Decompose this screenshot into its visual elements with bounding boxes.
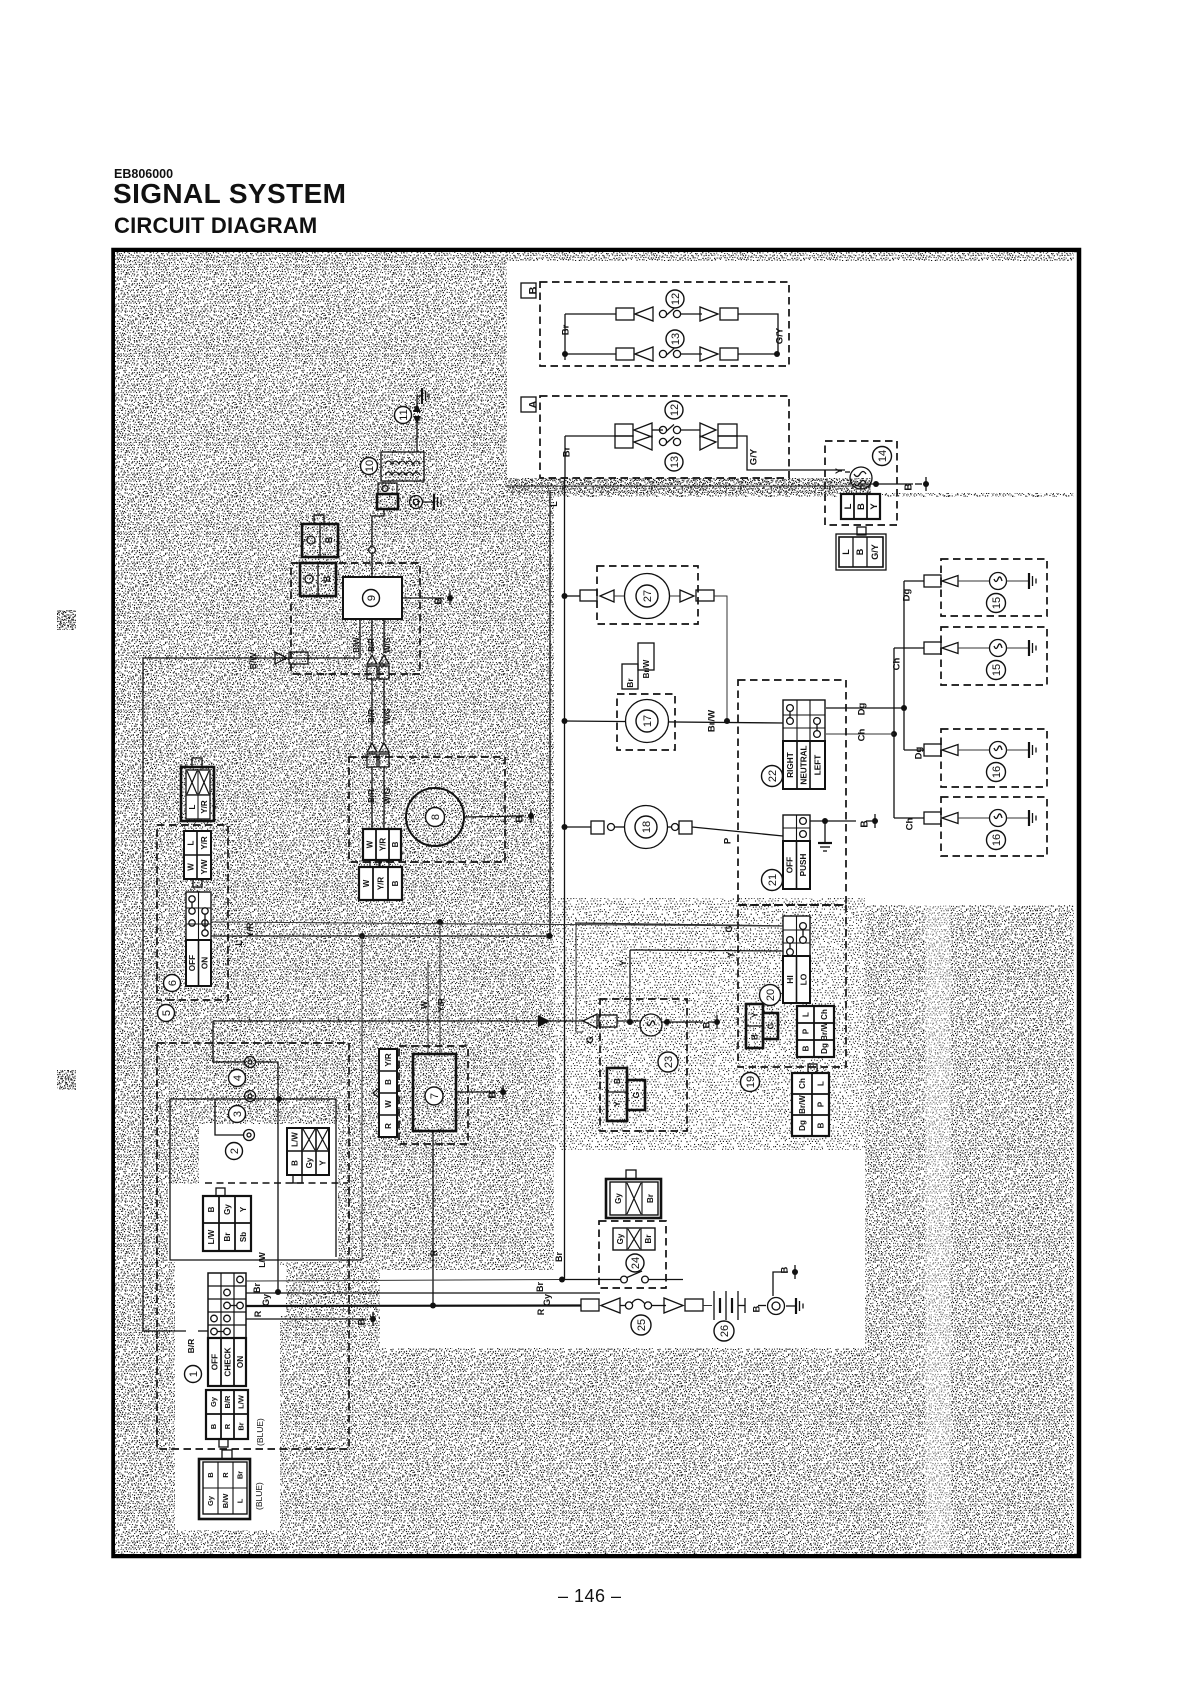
spark gap 11	[413, 402, 421, 452]
svg-text:Br/W: Br/W	[820, 1022, 829, 1041]
junction meter bulb	[664, 1019, 670, 1025]
junction Br at 18	[562, 824, 568, 830]
svg-text:B: B	[206, 1472, 215, 1478]
lamp 16 bulb	[990, 810, 1029, 827]
svg-text:Dg: Dg	[856, 702, 867, 715]
svg-text:Br: Br	[625, 678, 635, 688]
junction BrW	[724, 718, 730, 724]
terminal B lamp 14	[876, 477, 929, 491]
bullet connectors pair 2	[367, 743, 389, 767]
junction L wire b	[547, 933, 553, 939]
svg-text:Ch: Ch	[904, 817, 915, 830]
relay assembly 9 dashed box	[291, 563, 420, 674]
svg-text:B: B	[391, 880, 400, 886]
bullet connectors pair 1	[367, 655, 389, 679]
svg-text:B: B	[207, 1206, 216, 1212]
wire Ch to lamp 16	[894, 817, 924, 830]
halftone band under box A	[507, 478, 871, 493]
svg-text:14: 14	[877, 450, 889, 462]
connector Y B G (meter)	[607, 1068, 645, 1121]
svg-text:L: L	[843, 503, 854, 509]
svg-text:Y: Y	[726, 952, 736, 958]
wire box A right G/Y	[737, 436, 845, 470]
flasher relay contact row 13 (box B)	[565, 347, 778, 361]
fuse 5 number	[158, 1005, 175, 1022]
horn switch 21 contacts	[800, 818, 807, 838]
contact 3 number	[229, 1106, 246, 1123]
svg-text:B: B	[434, 597, 445, 604]
svg-text:L: L	[186, 840, 195, 845]
wire Y/R to regulator	[436, 922, 446, 1054]
wire from 27 right to Br/W	[670, 590, 727, 721]
meter light 23 number	[658, 1052, 678, 1072]
svg-text:10: 10	[364, 460, 376, 472]
svg-text:L: L	[236, 1498, 245, 1503]
svg-text:12: 12	[669, 404, 681, 416]
lamp 16 number	[987, 763, 1006, 782]
lighting switch 6 contacts	[189, 896, 208, 936]
connector O B upper	[302, 515, 338, 557]
junction lamp 14 B	[873, 481, 879, 487]
fuse connector B Gy Y	[287, 1128, 329, 1183]
svg-text:L: L	[549, 501, 559, 507]
svg-text:PUSH: PUSH	[799, 854, 808, 877]
svg-text:19: 19	[745, 1076, 757, 1088]
svg-text:Br: Br	[223, 1233, 232, 1242]
wire box B left	[565, 314, 616, 360]
flasher terminal right	[410, 494, 442, 510]
wire Dg to lamp 16	[904, 746, 924, 759]
svg-text:Gy: Gy	[616, 1233, 625, 1244]
relay contacts 12/13 (box A)	[615, 423, 737, 450]
svg-text:Y/R: Y/R	[200, 800, 209, 814]
svg-text:Br: Br	[535, 1282, 545, 1292]
svg-text:4: 4	[232, 1075, 244, 1081]
svg-text:Br: Br	[252, 1283, 262, 1293]
svg-text:25: 25	[636, 1319, 648, 1331]
svg-text:P: P	[801, 1028, 810, 1034]
svg-text:B: B	[391, 841, 400, 847]
wire vertical L to switch	[549, 490, 551, 936]
lighting switch 6 dashed box	[157, 825, 228, 1000]
meter lamp 14 dashed box	[825, 441, 897, 525]
svg-text:OFF: OFF	[211, 1354, 220, 1370]
svg-text:L/W: L/W	[257, 1251, 267, 1268]
node Br/W	[706, 710, 717, 732]
junction box B left	[562, 351, 568, 357]
svg-text:17: 17	[642, 715, 654, 727]
svg-text:OFF: OFF	[188, 955, 197, 971]
wire Y/R from switch	[211, 922, 783, 938]
white area mid right	[554, 497, 1074, 903]
oil level light 17 dashed box	[617, 694, 675, 750]
connector L/W Br Sb / B Gy Y	[203, 1188, 251, 1251]
connector label Br/W box	[638, 643, 654, 678]
svg-text:Ch: Ch	[856, 728, 867, 741]
lamp 15 number	[987, 594, 1006, 613]
meter lamp 14 number	[873, 447, 892, 466]
svg-text:Y: Y	[612, 1101, 622, 1107]
svg-text:B: B	[324, 536, 334, 543]
svg-text:Y: Y	[869, 503, 880, 510]
svg-text:R: R	[429, 1249, 439, 1256]
node L at band	[549, 501, 559, 507]
lamp 14 bulb	[845, 467, 876, 489]
main fuse 25 number	[631, 1315, 651, 1335]
svg-text:Y/R: Y/R	[436, 998, 446, 1012]
svg-text:11: 11	[398, 409, 410, 420]
svg-text:G: G	[631, 1091, 641, 1098]
wire loop main switch	[213, 1021, 278, 1099]
junction Dg	[901, 705, 907, 711]
lamp 15 connector bullets	[924, 642, 990, 654]
spark gap 11 number	[395, 407, 412, 424]
lamp 15 bulb	[990, 573, 1029, 590]
svg-text:B: B	[816, 1122, 825, 1128]
svg-text:W: W	[419, 1000, 429, 1009]
wire Ch to lamp 15	[891, 648, 924, 670]
lamp 16 number	[987, 831, 1006, 850]
svg-text:NEUTRAL: NEUTRAL	[800, 745, 809, 784]
battery 26 number	[714, 1321, 734, 1341]
ground top	[417, 388, 429, 404]
svg-text:27: 27	[642, 590, 654, 602]
diode connector Gy Br lower	[613, 1228, 655, 1250]
svg-text:W/G: W/G	[383, 637, 392, 653]
wire loop row 1135	[215, 1099, 243, 1135]
svg-text:RIGHT: RIGHT	[786, 752, 795, 777]
svg-text:Br: Br	[560, 324, 571, 335]
svg-text:22: 22	[767, 770, 779, 782]
margin smudge upper	[57, 610, 76, 630]
svg-text:9: 9	[366, 595, 378, 601]
svg-text:Sb: Sb	[239, 1232, 248, 1242]
svg-text:R: R	[384, 1123, 393, 1129]
svg-text:15: 15	[991, 597, 1003, 609]
node Y at lamp 14	[834, 468, 844, 474]
wire through 17	[564, 721, 783, 723]
svg-text:Dg: Dg	[913, 746, 924, 759]
svg-text:Br/W: Br/W	[798, 1095, 807, 1114]
svg-text:Br: Br	[237, 1422, 246, 1430]
svg-text:Br/W: Br/W	[642, 659, 651, 678]
wire R from regulator	[429, 1131, 439, 1306]
svg-text:Y/R: Y/R	[200, 836, 209, 850]
sidestand switch contacts	[562, 1271, 683, 1283]
wire flasher to 9	[369, 509, 384, 577]
svg-text:Br/W: Br/W	[706, 710, 717, 732]
horn switch 21 table	[783, 815, 810, 889]
svg-text:P: P	[816, 1101, 825, 1107]
svg-text:Y: Y	[239, 1206, 248, 1212]
white area bottom middle	[554, 1150, 865, 1270]
ground at lamp 15	[1029, 640, 1036, 656]
flasher lamp 16 dashed box	[941, 729, 1047, 787]
wire B/W to left	[143, 652, 360, 670]
fuse holder connector	[181, 758, 214, 821]
ground at lamp 15	[1029, 573, 1036, 589]
circuit 12 number (box B)	[666, 290, 684, 308]
main switch 1 number	[185, 1366, 202, 1383]
svg-text:18: 18	[641, 821, 653, 833]
immobilizer dashed box 5	[157, 1043, 349, 1449]
svg-text:B: B	[856, 503, 867, 510]
wire vertical Br trunk	[564, 478, 566, 1280]
meter light feed wire	[213, 1015, 583, 1027]
svg-text:B: B	[751, 1305, 762, 1312]
wire to 27 left	[564, 590, 624, 602]
svg-text:SIGNAL SYSTEM: SIGNAL SYSTEM	[113, 178, 346, 209]
regulator 7 dashed box	[399, 1046, 468, 1144]
connector B Y G (dimmer)	[746, 1004, 778, 1048]
junction Br at 27	[562, 593, 568, 599]
node G at meter	[585, 1036, 595, 1043]
svg-text:B: B	[209, 1423, 218, 1429]
svg-text:B/W: B/W	[248, 652, 258, 670]
wire Ch from switch 22	[826, 728, 894, 741]
circuit 13 number (box B)	[666, 330, 684, 348]
wire W Y/R vertical from connector	[361, 936, 363, 1260]
halftone background main	[115, 252, 1074, 1554]
svg-text:(BLUE): (BLUE)	[255, 1418, 265, 1446]
halftone meter area light speckle	[554, 898, 865, 1150]
svg-text:3: 3	[232, 1111, 244, 1117]
svg-text:B: B	[612, 1078, 622, 1084]
svg-text:W/G: W/G	[383, 788, 392, 804]
svg-text:20: 20	[765, 989, 777, 1001]
svg-text:L/W: L/W	[237, 1394, 246, 1409]
terminal B meter	[701, 1015, 720, 1029]
wire R from main switch	[246, 1306, 581, 1318]
svg-text:LEFT: LEFT	[814, 755, 823, 775]
svg-text:B: B	[528, 286, 540, 294]
svg-text:26: 26	[719, 1325, 731, 1337]
junction Br trunk bottom	[559, 1277, 565, 1283]
sidestand switch 24 dashed box	[599, 1221, 666, 1288]
junction Br at 17	[562, 718, 568, 724]
wire Y to dimmer	[630, 950, 783, 958]
oil level light 17	[626, 700, 669, 743]
diagram frame	[114, 250, 1080, 1556]
wire L along band	[505, 485, 871, 487]
svg-text:G/Y: G/Y	[870, 544, 880, 560]
connector L Y/R W Y/W	[184, 831, 211, 887]
svg-text:Gy: Gy	[261, 1294, 271, 1306]
flasher connector small	[377, 483, 398, 509]
halftone band top strip	[507, 252, 1074, 261]
terminal B relay 9	[402, 591, 453, 605]
svg-text:Ch: Ch	[798, 1078, 807, 1089]
label B boxed	[521, 283, 540, 298]
svg-text:B/R: B/R	[186, 1339, 196, 1354]
svg-text:A: A	[528, 400, 540, 408]
junction Ch	[891, 731, 897, 737]
svg-text:B/R: B/R	[367, 638, 376, 652]
svg-text:Br: Br	[646, 1194, 655, 1203]
svg-text:L/W: L/W	[290, 1132, 299, 1147]
lighting switch 6 table	[186, 892, 211, 986]
inner dashed divider	[205, 1182, 348, 1184]
svg-text:W: W	[384, 1100, 393, 1108]
dimmer switch 20 contacts	[787, 923, 807, 956]
wire Dg vertical right	[903, 581, 905, 750]
terminal B main switch	[246, 1312, 376, 1326]
svg-text:15: 15	[991, 664, 1003, 676]
svg-text:13: 13	[670, 333, 682, 345]
node G/Y box B	[774, 327, 785, 344]
contact 2	[244, 1130, 255, 1141]
lamp 16 bulb	[990, 742, 1029, 759]
svg-text:B: B	[290, 1160, 299, 1166]
svg-text:Gy: Gy	[614, 1193, 623, 1204]
sidestand switch 24 number	[626, 1254, 644, 1272]
connector R W B Y/R	[373, 1049, 397, 1137]
lamp 15 number	[987, 661, 1006, 680]
svg-text:Gy: Gy	[209, 1396, 218, 1407]
svg-text:Y: Y	[318, 1160, 327, 1166]
svg-text:L: L	[188, 804, 197, 809]
margin smudge lower	[57, 1070, 76, 1090]
headlight connector 19 upper	[797, 1006, 834, 1057]
wire B from 21	[810, 814, 878, 828]
scan streak light band	[925, 903, 951, 1554]
svg-text:Dg: Dg	[901, 588, 912, 601]
turn switch 22 number	[762, 766, 783, 787]
wire loop row 1099	[170, 1096, 336, 1102]
svg-text:B/R: B/R	[367, 709, 376, 723]
svg-text:B: B	[488, 1091, 499, 1098]
wire G loop meter	[576, 923, 783, 1032]
svg-text:1: 1	[188, 1371, 200, 1377]
dimmer switch 20 table	[783, 916, 810, 1003]
dimmer switch 20 number	[760, 985, 781, 1006]
ground at lamp 16	[1029, 742, 1036, 758]
lamp 15 bulb	[990, 640, 1029, 657]
junction box B right	[774, 351, 780, 357]
junction L wire a	[359, 933, 365, 939]
wires under relay 9	[352, 619, 392, 658]
connector W Y/R B upper	[363, 829, 401, 868]
svg-text:6: 6	[167, 980, 179, 986]
wire W to regulator	[419, 960, 429, 1054]
svg-text:P: P	[722, 837, 733, 844]
svg-text:16: 16	[991, 766, 1003, 778]
svg-text:Gy: Gy	[542, 1294, 552, 1306]
flasher lamp 15 dashed box	[941, 559, 1047, 616]
flasher relay contact row 12 (box B)	[616, 307, 738, 321]
svg-text:Gy: Gy	[223, 1204, 232, 1215]
svg-text:B: B	[515, 815, 526, 822]
dimmer switch dashed box 19/20	[738, 905, 846, 1067]
svg-text:L: L	[816, 1081, 825, 1086]
svg-text:LO: LO	[798, 973, 808, 985]
svg-text:W/G: W/G	[383, 708, 392, 724]
main switch 1 table	[208, 1273, 246, 1386]
horn 8	[406, 788, 464, 846]
turn switch 22 table	[783, 700, 825, 789]
wire loop left side	[170, 1099, 362, 1268]
svg-text:Y/R: Y/R	[378, 838, 387, 852]
wire loop right side	[278, 1099, 336, 1292]
svg-text:G/Y: G/Y	[774, 327, 785, 344]
svg-text:Ch: Ch	[891, 657, 902, 670]
wire G to dimmer	[576, 923, 783, 933]
circuit 12 number (box A)	[665, 401, 683, 419]
fuel light 18	[564, 806, 668, 849]
svg-text:Y: Y	[618, 960, 628, 966]
svg-text:OFF: OFF	[786, 857, 795, 873]
svg-text:Gy: Gy	[206, 1495, 215, 1506]
svg-text:W: W	[362, 879, 371, 887]
svg-text:12: 12	[670, 293, 682, 305]
svg-text:G: G	[766, 1022, 776, 1029]
svg-text:B: B	[322, 575, 332, 582]
relay unit 9	[343, 577, 402, 619]
wires B/R W/G into horn box	[367, 767, 392, 829]
starter relay circle	[768, 1298, 804, 1315]
white area top right	[507, 253, 1074, 478]
connector L B G/Y	[836, 527, 886, 570]
svg-text:7: 7	[429, 1093, 441, 1099]
wire P from 18	[668, 821, 784, 844]
lamp 16 connector bullets	[924, 812, 990, 824]
svg-text:Ch: Ch	[820, 1009, 829, 1020]
svg-text:B: B	[356, 1318, 367, 1325]
svg-text:L: L	[841, 549, 851, 555]
svg-text:B: B	[801, 1045, 810, 1051]
svg-text:B: B	[779, 1266, 790, 1273]
svg-text:B: B	[750, 1034, 760, 1040]
svg-text:(BLUE): (BLUE)	[254, 1482, 264, 1510]
ground from 21	[818, 821, 832, 851]
white area main-switch connectors	[199, 1124, 338, 1184]
lamp 15 connector bullets	[924, 575, 990, 587]
svg-text:21: 21	[767, 874, 779, 886]
flasher relay 10 number	[361, 458, 378, 475]
svg-text:B/W: B/W	[352, 637, 361, 653]
turn indicator light 27 dashed box	[597, 566, 698, 624]
meter light 23 dashed box	[600, 999, 687, 1131]
wire Gy from main switch	[246, 1293, 600, 1306]
svg-text:R: R	[221, 1472, 230, 1478]
svg-text:L: L	[801, 1012, 810, 1017]
svg-text:L: L	[234, 940, 244, 946]
connector main switch BLUE lower	[199, 1450, 264, 1519]
svg-text:16: 16	[991, 834, 1003, 846]
meter light bullets	[583, 1014, 641, 1028]
handlebar switch dashed box 22/21	[738, 680, 846, 905]
svg-text:B: B	[904, 483, 915, 490]
svg-text:R: R	[536, 1308, 546, 1315]
connector W Y/R B lower	[359, 861, 402, 900]
wire B battery	[751, 1305, 766, 1312]
headlight connector 19 lower	[792, 1064, 829, 1136]
svg-text:W: W	[186, 863, 195, 871]
svg-text:Y/R: Y/R	[384, 1053, 393, 1067]
battery 26	[714, 1291, 745, 1320]
flasher lamp 15 dashed box	[941, 627, 1047, 685]
svg-text:Br: Br	[644, 1235, 653, 1244]
contact 4	[245, 1057, 256, 1068]
main fuse 25	[561, 1298, 652, 1313]
svg-text:Y: Y	[834, 468, 844, 474]
relay box B dashed outline	[540, 282, 789, 366]
svg-text:R: R	[253, 1310, 263, 1317]
node Br box B	[560, 324, 571, 335]
svg-text:G/Y: G/Y	[748, 448, 759, 465]
svg-text:B/R: B/R	[223, 1395, 232, 1409]
svg-text:B/W: B/W	[221, 1493, 230, 1509]
